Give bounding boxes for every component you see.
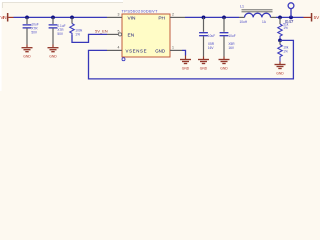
ground (C2): [48, 45, 59, 59]
capacitor C1 10uF: [23, 17, 39, 44]
svg-text:50V: 50V: [57, 32, 64, 36]
node junction C4: [222, 16, 226, 20]
wire feedback loop: [89, 40, 294, 79]
port VIN (input, left edge): [0, 13, 13, 22]
svg-text:GND: GND: [23, 55, 31, 59]
svg-text:10uF: 10uF: [208, 34, 215, 38]
svg-text:2: 2: [172, 13, 174, 17]
pin 5 EN: [107, 30, 122, 36]
node junction C3: [202, 16, 206, 20]
svg-text:VSENSE: VSENSE: [126, 48, 147, 53]
ground (C1): [22, 45, 33, 59]
svg-text:TPS560200DBVT: TPS560200DBVT: [122, 10, 159, 14]
svg-text:10uH: 10uH: [240, 20, 248, 24]
pin 4 VSENSE: [107, 46, 122, 51]
capacitor C3 10uF: [199, 17, 215, 56]
node junction feedback: [278, 39, 282, 43]
resistor R1 51k (divider top): [278, 17, 289, 40]
svg-text:VIN: VIN: [0, 15, 6, 20]
pin 3 VIN: [107, 13, 122, 18]
svg-text:1: 1: [172, 46, 174, 50]
svg-text:16V: 16V: [228, 46, 235, 50]
svg-text:5V: 5V: [314, 15, 320, 20]
svg-text:5: 5: [118, 30, 120, 34]
svg-text:4: 4: [118, 46, 120, 50]
node junction test point: [289, 16, 293, 20]
wire VIN rail: [14, 16, 108, 18]
no-ERC marker: [122, 58, 125, 61]
wire R-EN to EN pin: [72, 34, 107, 42]
port 5V (output, right edge): [304, 13, 320, 22]
capacitor C4 10uF: [220, 17, 236, 56]
ground (U1 GND): [180, 56, 191, 71]
svg-text:50V: 50V: [31, 31, 38, 35]
resistor R2 10k (divider bottom): [278, 41, 289, 62]
svg-text:1%: 1%: [283, 49, 288, 53]
pin 1 GND: [170, 46, 182, 51]
svg-text:GND: GND: [182, 66, 190, 70]
ground (C4): [219, 57, 230, 71]
svg-text:GND: GND: [276, 71, 284, 75]
svg-text:16V: 16V: [208, 46, 215, 50]
capacitor C2 0.1uF: [49, 17, 66, 44]
inductor L1 10uH: [239, 5, 276, 24]
svg-text:1%: 1%: [75, 33, 80, 37]
pin 2 PH: [170, 13, 185, 18]
svg-text:GND: GND: [155, 48, 165, 53]
node junction divider: [278, 16, 282, 20]
svg-text:PH: PH: [158, 15, 165, 21]
svg-text:GND: GND: [49, 55, 57, 59]
wire PH rail: [185, 16, 239, 18]
test point E47: [285, 3, 294, 24]
svg-text:10uF: 10uF: [228, 34, 235, 38]
svg-text:VIN: VIN: [128, 15, 137, 21]
op-amp U1 TPS560200DBVT regulator body: [122, 10, 171, 61]
svg-text:3: 3: [118, 13, 120, 17]
svg-text:GND: GND: [200, 66, 208, 70]
node junction C1: [25, 16, 29, 20]
node junction R-EN: [70, 16, 74, 20]
node junction C2: [51, 16, 55, 20]
resistor R-EN 100k (EN pull-up): [70, 17, 83, 36]
svg-text:EN: EN: [128, 32, 135, 38]
svg-text:GND: GND: [220, 66, 228, 70]
ground (divider): [275, 62, 286, 76]
sheet background: [0, 0, 320, 91]
svg-text:L1: L1: [240, 5, 244, 9]
svg-text:1%: 1%: [283, 26, 288, 30]
ground (C3): [198, 57, 209, 71]
svg-text:5V_EN: 5V_EN: [95, 29, 108, 34]
wire output rail: [276, 16, 304, 18]
wire GND pin to ground: [182, 50, 186, 55]
